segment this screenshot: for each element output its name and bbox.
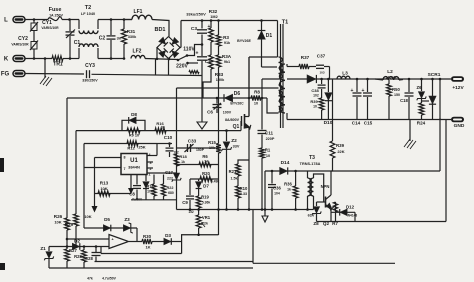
- wire output up to VR1 line: [182, 235, 219, 254]
- svg-text:R12: R12: [127, 146, 135, 151]
- T2 lower winding: [78, 48, 80, 59]
- long vertical right of U1: [176, 88, 178, 210]
- svg-text:R3A: R3A: [222, 54, 232, 59]
- potentiometer VR1 2k: [196, 215, 201, 228]
- svg-text:Z2: Z2: [231, 138, 237, 144]
- svg-text:C8: C8: [129, 192, 135, 197]
- svg-text:U1: U1: [130, 158, 138, 164]
- diode D12 IN4148: [331, 211, 355, 213]
- svg-text:1.5k: 1.5k: [231, 177, 238, 181]
- svg-text:10k: 10k: [209, 146, 215, 150]
- svg-text:D6: D6: [234, 91, 241, 97]
- wire bridge bottom vertex down: [168, 59, 170, 76]
- diode D8b: [145, 175, 147, 182]
- resistor R39b 10: [319, 98, 324, 110]
- svg-text:C18: C18: [400, 98, 408, 103]
- thermistor TR1: [52, 56, 63, 61]
- capacitor C14: [356, 79, 358, 92]
- svg-text:2k: 2k: [204, 222, 208, 226]
- rail with D6 and R8: [67, 97, 267, 99]
- wire right vertical: [439, 79, 441, 120]
- capacitor C28 4.7u/50V: [95, 245, 98, 248]
- wire K to TR1: [25, 58, 52, 60]
- svg-text:R32: R32: [209, 9, 218, 14]
- rectifier diode D13: [287, 78, 307, 80]
- capacitor C8 7u/50V: [136, 175, 138, 185]
- wire fuse to C1 node: [62, 19, 79, 21]
- R12 line 25K: [84, 143, 157, 145]
- capacitor C18: [408, 79, 410, 92]
- capacitor C9 152: [189, 179, 191, 195]
- svg-text:R50: R50: [392, 87, 400, 92]
- T1 aux winding: [279, 85, 283, 112]
- capacitor C5: [201, 45, 203, 57]
- svg-text:C36: C36: [273, 186, 281, 191]
- svg-text:+: +: [362, 88, 365, 94]
- bottom wire under U1: [131, 199, 177, 201]
- svg-text:+: +: [196, 51, 199, 57]
- svg-text:D8: D8: [131, 112, 137, 117]
- svg-text:VARIS/10R: VARIS/10R: [11, 43, 29, 47]
- svg-text:R14: R14: [147, 185, 155, 189]
- ground arrow mid: [262, 216, 268, 222]
- svg-text:L2: L2: [387, 69, 393, 75]
- svg-text:10K: 10K: [84, 214, 91, 219]
- T1 primary bottom wire: [262, 78, 279, 80]
- svg-text:C2: C2: [99, 36, 106, 42]
- resistor R29 10K: [74, 214, 79, 226]
- svg-text:R36: R36: [284, 182, 292, 187]
- T3 right winding pins: [314, 174, 324, 202]
- svg-text:220P: 220P: [266, 137, 275, 141]
- diode D6 BYV26C: [225, 94, 233, 101]
- chassis ground below GND rail: [409, 120, 411, 142]
- wire bridge right vertex to DC rail: [180, 47, 181, 49]
- svg-text:1k: 1k: [181, 160, 185, 164]
- clamp wire to Q1 drain: [249, 56, 278, 58]
- plus input wire: [67, 238, 109, 240]
- svg-text:+: +: [351, 88, 354, 94]
- svg-text:22K: 22K: [337, 149, 344, 154]
- zener Z6: [421, 79, 423, 91]
- svg-text:D3: D3: [165, 233, 171, 238]
- svg-text:R13: R13: [100, 181, 109, 186]
- svg-text:R39: R39: [310, 99, 318, 104]
- svg-text:61V: 61V: [308, 214, 315, 218]
- feedback from GND to Q2 bus: [445, 120, 447, 222]
- IC U1 3844N: [121, 154, 147, 175]
- current sense resistor R10 0.33: [237, 176, 239, 186]
- snubber R37: [287, 66, 299, 68]
- resistor R7: [335, 202, 337, 212]
- ground rail A: [49, 267, 253, 269]
- zener Z8 6.1V: [316, 202, 318, 206]
- svg-text:D2: D2: [74, 239, 80, 244]
- svg-text:D5: D5: [104, 217, 110, 222]
- resistor R18 1k: [174, 154, 178, 166]
- resistor R50 150: [388, 80, 390, 84]
- svg-text:Z6: Z6: [417, 85, 423, 90]
- capacitor C15: [367, 79, 369, 92]
- svg-text:R20: R20: [202, 171, 210, 176]
- svg-text:110V: 110V: [183, 47, 195, 53]
- svg-text:R21: R21: [229, 169, 237, 174]
- svg-text:10: 10: [313, 105, 317, 109]
- diode D3: [164, 238, 171, 244]
- svg-text:680: 680: [168, 191, 174, 195]
- svg-text:10K: 10K: [100, 186, 107, 191]
- diode D7: [198, 179, 200, 181]
- terminal K: [13, 56, 25, 62]
- resistor R19 5.36k: [196, 196, 201, 208]
- svg-text:Fuse: Fuse: [49, 7, 62, 13]
- svg-text:33ku/250V: 33ku/250V: [186, 12, 206, 17]
- svg-text:R27: R27: [69, 248, 77, 253]
- svg-text:NPN: NPN: [321, 184, 330, 189]
- wire LF2 to bridge left: [145, 59, 178, 60]
- wire L to fuse: [25, 19, 48, 21]
- svg-text:220V: 220V: [176, 64, 188, 70]
- svg-text:VR1: VR1: [202, 215, 211, 220]
- svg-text:T2: T2: [85, 5, 91, 11]
- svg-text:102: 102: [313, 94, 319, 98]
- svg-text:R9 10: R9 10: [129, 134, 139, 138]
- svg-text:10: 10: [266, 154, 270, 158]
- resistor R13 10K: [95, 193, 132, 195]
- svg-text:R10: R10: [240, 186, 248, 191]
- resistor R36 1k: [295, 171, 297, 186]
- output ground rail: [287, 119, 451, 121]
- T1 primary winding: [279, 57, 283, 79]
- secondary bottom wire: [286, 113, 288, 120]
- capacitor C2: [110, 18, 113, 21]
- svg-text:R26: R26: [54, 214, 63, 219]
- ground triangle below C6: [201, 76, 203, 123]
- svg-text:Z3: Z3: [124, 217, 130, 222]
- diode D1 BYV26E: [260, 19, 263, 22]
- svg-text:R28: R28: [74, 254, 82, 259]
- svg-text:152: 152: [188, 210, 194, 214]
- scan artifacts left edge: [0, 158, 4, 172]
- secondary top wire: [286, 64, 288, 67]
- svg-text:9k1: 9k1: [224, 60, 230, 64]
- svg-text:4.7u/50V: 4.7u/50V: [102, 277, 116, 281]
- svg-text:0.33: 0.33: [240, 192, 247, 196]
- svg-text:8A/800V: 8A/800V: [225, 118, 240, 122]
- wire top rail corner to T1 primary: [277, 21, 279, 58]
- svg-text:150k: 150k: [216, 78, 225, 82]
- svg-text:10k: 10k: [147, 190, 153, 194]
- svg-text:C10: C10: [164, 135, 173, 140]
- svg-text:Z1: Z1: [40, 246, 46, 251]
- capacitor C36 104: [271, 171, 273, 184]
- resistor R9 10 gate: [127, 128, 140, 133]
- svg-text:3844N: 3844N: [128, 165, 140, 170]
- T3 left winding pins: [307, 171, 309, 178]
- DC top rail: [181, 20, 278, 22]
- svg-text:C14: C14: [352, 121, 361, 126]
- terminal L: [13, 17, 25, 23]
- diode D10: [327, 79, 329, 92]
- svg-text:10K: 10K: [54, 220, 61, 225]
- source sense resistor R21 1.5k: [236, 164, 241, 176]
- svg-text:C28: C28: [85, 256, 93, 261]
- svg-text:R39: R39: [336, 143, 345, 148]
- svg-text:R29: R29: [65, 222, 74, 227]
- svg-text:BYV26E: BYV26E: [237, 39, 251, 43]
- svg-text:7: 7: [124, 167, 126, 171]
- bottom AC rail from LF2: [155, 59, 157, 75]
- Q2 bottom bus: [317, 221, 447, 223]
- ground rail B: [95, 261, 254, 263]
- svg-text:TRNS-178A: TRNS-178A: [300, 162, 321, 166]
- svg-text:C3: C3: [191, 26, 197, 32]
- svg-text:47k: 47k: [87, 277, 93, 281]
- svg-text:D1: D1: [266, 33, 273, 39]
- svg-text:BD1: BD1: [154, 27, 165, 33]
- bottom rail C: [253, 262, 395, 264]
- T2 upper winding: [78, 20, 80, 30]
- fuse F1 1A 250V: [48, 17, 62, 21]
- svg-text:L: L: [4, 18, 8, 24]
- svg-text:330/250V: 330/250V: [82, 79, 98, 83]
- resistor R3 91k: [217, 19, 220, 22]
- terminal GND: [451, 117, 464, 123]
- svg-text:25K: 25K: [138, 145, 145, 150]
- resistor R28: [83, 247, 85, 251]
- svg-text:C33: C33: [188, 139, 197, 144]
- svg-text:R8: R8: [254, 90, 260, 95]
- T1 aux bottom wire: [267, 98, 279, 113]
- capacitor C38 102: [321, 79, 323, 84]
- bus down corner: [252, 210, 254, 264]
- earth line FG: [25, 73, 84, 76]
- svg-text:C37: C37: [317, 54, 326, 59]
- svg-text:R1: R1: [265, 148, 271, 153]
- svg-text:R22: R22: [167, 186, 174, 190]
- svg-text:TR1: TR1: [53, 62, 63, 68]
- svg-text:R37: R37: [301, 55, 310, 60]
- svg-text:T3: T3: [309, 155, 315, 161]
- svg-text:FG: FG: [1, 72, 10, 78]
- left bus corner rail98: [66, 98, 68, 218]
- svg-text:C6: C6: [207, 110, 213, 115]
- U1 pin3 stub: [147, 161, 153, 163]
- terminal +12V: [451, 76, 464, 82]
- svg-text:D14: D14: [281, 160, 290, 166]
- svg-text:R33: R33: [215, 72, 224, 77]
- svg-text:R31: R31: [127, 29, 136, 34]
- diode D14: [280, 168, 287, 175]
- svg-text:14: 14: [204, 160, 208, 164]
- svg-text:R30: R30: [143, 234, 152, 239]
- mid bus: [177, 209, 301, 211]
- gate line: [76, 130, 241, 132]
- wire R3A chain down: [218, 67, 220, 144]
- resistor R33 150k: [210, 42, 212, 55]
- snubber C37: [309, 66, 316, 68]
- chassis ground at input: [44, 59, 46, 79]
- T1 secondary winding: [279, 64, 285, 113]
- svg-text:Q1: Q1: [233, 124, 240, 130]
- svg-text:R19: R19: [201, 195, 209, 200]
- svg-text:C17: C17: [165, 170, 173, 175]
- capacitor C10 102: [168, 142, 171, 145]
- wire TR1 to C1: [63, 58, 79, 60]
- line R20: [190, 178, 219, 180]
- output wire: [129, 241, 143, 243]
- T1 core: [280, 24, 282, 128]
- svg-text:5.36k: 5.36k: [202, 201, 211, 205]
- svg-text:D7: D7: [203, 184, 209, 189]
- bus y209 extension under T3: [300, 209, 314, 211]
- feedback under opamp: [100, 247, 102, 254]
- svg-text:104: 104: [274, 192, 280, 196]
- capacitor C11 220P: [261, 98, 263, 130]
- left bus corner pin8 line: [94, 158, 96, 207]
- U1 pin8 wire: [95, 157, 122, 159]
- capacitor C33 150P: [177, 147, 219, 149]
- svg-text:GND: GND: [454, 123, 465, 129]
- svg-text:150: 150: [394, 93, 400, 97]
- svg-text:R6: R6: [202, 154, 208, 159]
- diode D8 parallel gate: [122, 120, 145, 130]
- resistor R30 1K: [142, 239, 152, 244]
- svg-text:3n: 3n: [117, 36, 122, 41]
- resistor R39 22K on collector line: [331, 170, 333, 172]
- svg-text:C11: C11: [265, 131, 274, 136]
- resistor R8 10: [251, 95, 261, 100]
- wire CY2 to K line: [33, 49, 35, 59]
- svg-text:C15: C15: [364, 121, 373, 126]
- svg-text:1M2: 1M2: [210, 15, 217, 19]
- left bus corner R12 line: [83, 144, 85, 229]
- svg-text:222: 222: [167, 177, 173, 181]
- wire R12 to U1 pin4: [156, 144, 158, 156]
- capacitor C1: [69, 20, 71, 32]
- resistor R20 6.49k: [200, 176, 212, 181]
- wire LF1 to bridge top: [152, 20, 169, 37]
- op-amp comparator: [109, 235, 129, 249]
- svg-text:91k: 91k: [224, 41, 231, 45]
- svg-text:LF1: LF1: [134, 9, 143, 15]
- svg-text:1k: 1k: [287, 188, 291, 192]
- resistor R31 330k: [123, 18, 126, 21]
- U1 pin1 wire: [147, 172, 177, 174]
- svg-text:LF2: LF2: [133, 49, 142, 55]
- svg-text:4: 4: [149, 153, 151, 157]
- svg-text:C9: C9: [182, 200, 188, 205]
- resistor R16 10: [155, 128, 166, 133]
- svg-text:R15: R15: [208, 140, 216, 145]
- diode D5 line: [84, 227, 137, 229]
- svg-text:SCR1: SCR1: [428, 72, 441, 78]
- svg-text:+12V: +12V: [452, 85, 464, 91]
- svg-text:8: 8: [124, 156, 126, 160]
- terminal FG: [13, 71, 25, 77]
- resistor R3A 9k1: [218, 46, 220, 55]
- U1 pin2 stub: [147, 167, 153, 169]
- svg-text:R18: R18: [179, 154, 187, 159]
- left bus corner gate line: [75, 131, 77, 214]
- svg-text:LF 1040: LF 1040: [81, 12, 95, 16]
- capacitor C6 100V: [216, 98, 218, 104]
- resistor R22 680: [163, 175, 165, 185]
- wire bridge left vertex down: [156, 48, 158, 59]
- svg-text:1A 250V: 1A 250V: [49, 14, 63, 18]
- svg-text:100V: 100V: [223, 111, 232, 115]
- svg-text:1K: 1K: [145, 245, 150, 250]
- svg-text:BYV26C: BYV26C: [230, 102, 244, 106]
- svg-text:D10: D10: [324, 120, 333, 126]
- resistor R27: [66, 247, 68, 250]
- resistor R26 10K: [65, 218, 70, 230]
- svg-text:10: 10: [161, 126, 165, 130]
- resistor R14 10k: [153, 175, 155, 185]
- U1 pin5 ground arrow: [130, 175, 132, 189]
- zener Z2 33V: [225, 129, 228, 132]
- svg-text:6.49k: 6.49k: [211, 180, 220, 184]
- svg-text:VARIS/10R: VARIS/10R: [41, 26, 59, 30]
- diode D14 line: [265, 170, 308, 172]
- svg-text:103: 103: [319, 71, 324, 75]
- svg-text:R3: R3: [223, 35, 229, 40]
- svg-text:10: 10: [254, 102, 258, 106]
- resistor R15 10k: [216, 144, 221, 154]
- svg-text:IN4148: IN4148: [347, 214, 358, 218]
- svg-text:CY2: CY2: [18, 36, 28, 42]
- resistor R24: [419, 103, 424, 115]
- U1 pin7 wire: [84, 167, 121, 169]
- svg-text:C38: C38: [311, 88, 319, 93]
- svg-text:D12: D12: [346, 205, 355, 210]
- zener Z3: [124, 225, 131, 231]
- T1 aux top wire: [177, 87, 279, 89]
- varistor CY1: [33, 20, 35, 24]
- svg-text:330k: 330k: [128, 35, 137, 39]
- svg-text:33V: 33V: [233, 145, 240, 149]
- varistor CY2: [31, 42, 37, 50]
- svg-text:CY3: CY3: [85, 63, 95, 69]
- svg-text:K: K: [4, 57, 9, 63]
- resistor R1 10: [261, 135, 263, 149]
- svg-text:150P: 150P: [196, 148, 205, 152]
- svg-text:R24: R24: [417, 121, 426, 126]
- small mark near 220V: [189, 71, 199, 74]
- wire CY1 to CY2: [33, 31, 35, 42]
- feedback line from GND rail: [308, 170, 441, 172]
- resistor R6 14 line: [177, 164, 219, 166]
- resistor R12 25K: [127, 141, 138, 146]
